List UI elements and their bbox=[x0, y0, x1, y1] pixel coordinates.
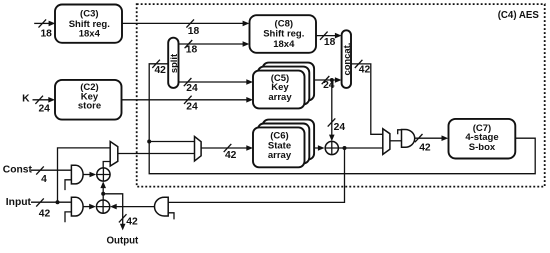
svg-text:S-box: S-box bbox=[469, 142, 496, 153]
svg-text:42: 42 bbox=[39, 209, 51, 220]
gate4 clock latch (before C7) bbox=[398, 130, 415, 148]
wire C3 to C8 with slash, label 18 bbox=[122, 19, 249, 36]
XOR2 (Input row) bbox=[96, 200, 109, 213]
node junction above XOR2 bbox=[101, 192, 105, 196]
mux1 (bottom left) bbox=[110, 142, 118, 167]
wire mux1 to mux2 bbox=[118, 153, 195, 155]
svg-text:24: 24 bbox=[38, 103, 50, 114]
svg-text:42: 42 bbox=[154, 65, 166, 76]
svg-text:18: 18 bbox=[186, 45, 198, 56]
slash and label 4 on Const input bbox=[36, 166, 47, 185]
label Input bbox=[6, 197, 32, 208]
wire C5 to concat with slash, label 24 bbox=[300, 76, 342, 91]
wire AND gate to C7 with slash, label 42 bbox=[415, 134, 449, 154]
mux3 (before S-box) bbox=[383, 129, 390, 155]
wire gate1 to XOR1 bbox=[83, 172, 96, 178]
wire state XOR feedback down to output AND gate bbox=[168, 148, 344, 202]
box C8 shift register bbox=[250, 15, 317, 53]
wire mux3 to clock AND gate bbox=[390, 140, 402, 142]
XOR1 (Const row) bbox=[97, 168, 110, 181]
wire split to C8 with slash, label 18 bbox=[178, 40, 249, 56]
wire C8 to concat with slash, label 18 bbox=[316, 32, 342, 48]
svg-text:18x4: 18x4 bbox=[273, 39, 295, 50]
slash and label 42 on split input bbox=[152, 60, 166, 76]
node junction after state XOR bbox=[343, 146, 347, 150]
box C5 key array (stack of 3) bbox=[253, 63, 314, 109]
wire state XOR to mux3 bbox=[338, 147, 383, 149]
wire split to C5 with slash, label 24 bbox=[178, 78, 253, 94]
label Const bbox=[3, 165, 33, 176]
svg-text:concat.: concat. bbox=[341, 43, 352, 76]
gate2 latch (Input row) bbox=[65, 197, 83, 222]
concat pill bbox=[341, 30, 352, 88]
wire K external input with slash, label 24 bbox=[33, 96, 56, 115]
svg-text:split: split bbox=[168, 54, 179, 73]
wire XOR1 up to mux1 bbox=[103, 162, 110, 168]
svg-text:42: 42 bbox=[225, 150, 237, 161]
wire Input line into gate bbox=[31, 201, 71, 203]
node junction on feedback riser bbox=[147, 140, 151, 144]
svg-text:24: 24 bbox=[186, 101, 198, 112]
svg-text:18: 18 bbox=[188, 26, 200, 37]
svg-text:42: 42 bbox=[419, 143, 431, 154]
box C2 key store bbox=[55, 80, 122, 120]
wire C2 to C5 with slash, label 24 bbox=[122, 96, 253, 113]
svg-text:4: 4 bbox=[41, 174, 47, 185]
svg-text:array: array bbox=[268, 150, 292, 161]
svg-text:array: array bbox=[268, 92, 292, 103]
box C7 4-stage S-box bbox=[449, 119, 516, 159]
svg-text:K: K bbox=[22, 94, 30, 105]
wire branch to mux2 top input from feedback riser bbox=[149, 141, 194, 143]
svg-text:18: 18 bbox=[40, 29, 52, 40]
wire C5 branch down to state XOR with slash, label 24 bbox=[328, 78, 346, 141]
wire concat to mux3 with slash, label 42 bbox=[351, 60, 383, 135]
label K input bbox=[22, 94, 30, 105]
svg-text:24: 24 bbox=[334, 122, 346, 133]
wire Input branch up to mux1 bbox=[58, 148, 111, 202]
svg-text:18x4: 18x4 bbox=[79, 29, 101, 40]
split pill bbox=[168, 38, 179, 88]
box C6 state array (stack of 3) bbox=[253, 120, 314, 168]
label Output bbox=[107, 235, 140, 246]
gate3 output latch (left-facing) bbox=[155, 197, 175, 219]
svg-text:42: 42 bbox=[126, 216, 138, 227]
svg-text:(C3): (C3) bbox=[80, 8, 98, 19]
wire gate2 to XOR2 bbox=[83, 204, 96, 210]
svg-text:24: 24 bbox=[186, 83, 198, 94]
wire C6 to state XOR bbox=[300, 145, 325, 151]
svg-text:18: 18 bbox=[324, 37, 336, 48]
wire XOR2 up with arrow into XOR1 bbox=[100, 181, 106, 200]
node junction on Input line bbox=[56, 200, 60, 204]
XOR state (after C6) bbox=[325, 141, 338, 154]
wire Output branch with slash, label 42 bbox=[103, 194, 138, 231]
wire mux2 to C6 with slash, label 42 bbox=[201, 144, 253, 161]
gate1 latch (Const row) bbox=[65, 165, 83, 190]
wire output AND gate to XOR2 right input bbox=[110, 204, 155, 210]
svg-text:24: 24 bbox=[323, 80, 335, 91]
mux2 (before state array) bbox=[195, 137, 202, 162]
wire Const line into gate bbox=[31, 169, 71, 171]
wire C7 feedback: C7 out, down right side, left along y=172.8, up at x=149.2 into split bbox=[149, 64, 535, 174]
label (C4) AES bbox=[498, 10, 540, 21]
box C3 shift register bbox=[55, 5, 122, 43]
svg-text:(C4) AES: (C4) AES bbox=[498, 10, 540, 21]
svg-text:Input: Input bbox=[6, 197, 32, 208]
svg-text:store: store bbox=[78, 101, 101, 112]
wire C3 external input with slash, label 18 bbox=[34, 19, 55, 39]
svg-text:Const: Const bbox=[3, 165, 33, 176]
svg-text:Output: Output bbox=[107, 235, 140, 246]
dashed module boundary (C4) bbox=[137, 4, 545, 187]
slash and label 42 on Input line bbox=[36, 198, 50, 219]
svg-text:42: 42 bbox=[359, 65, 371, 76]
